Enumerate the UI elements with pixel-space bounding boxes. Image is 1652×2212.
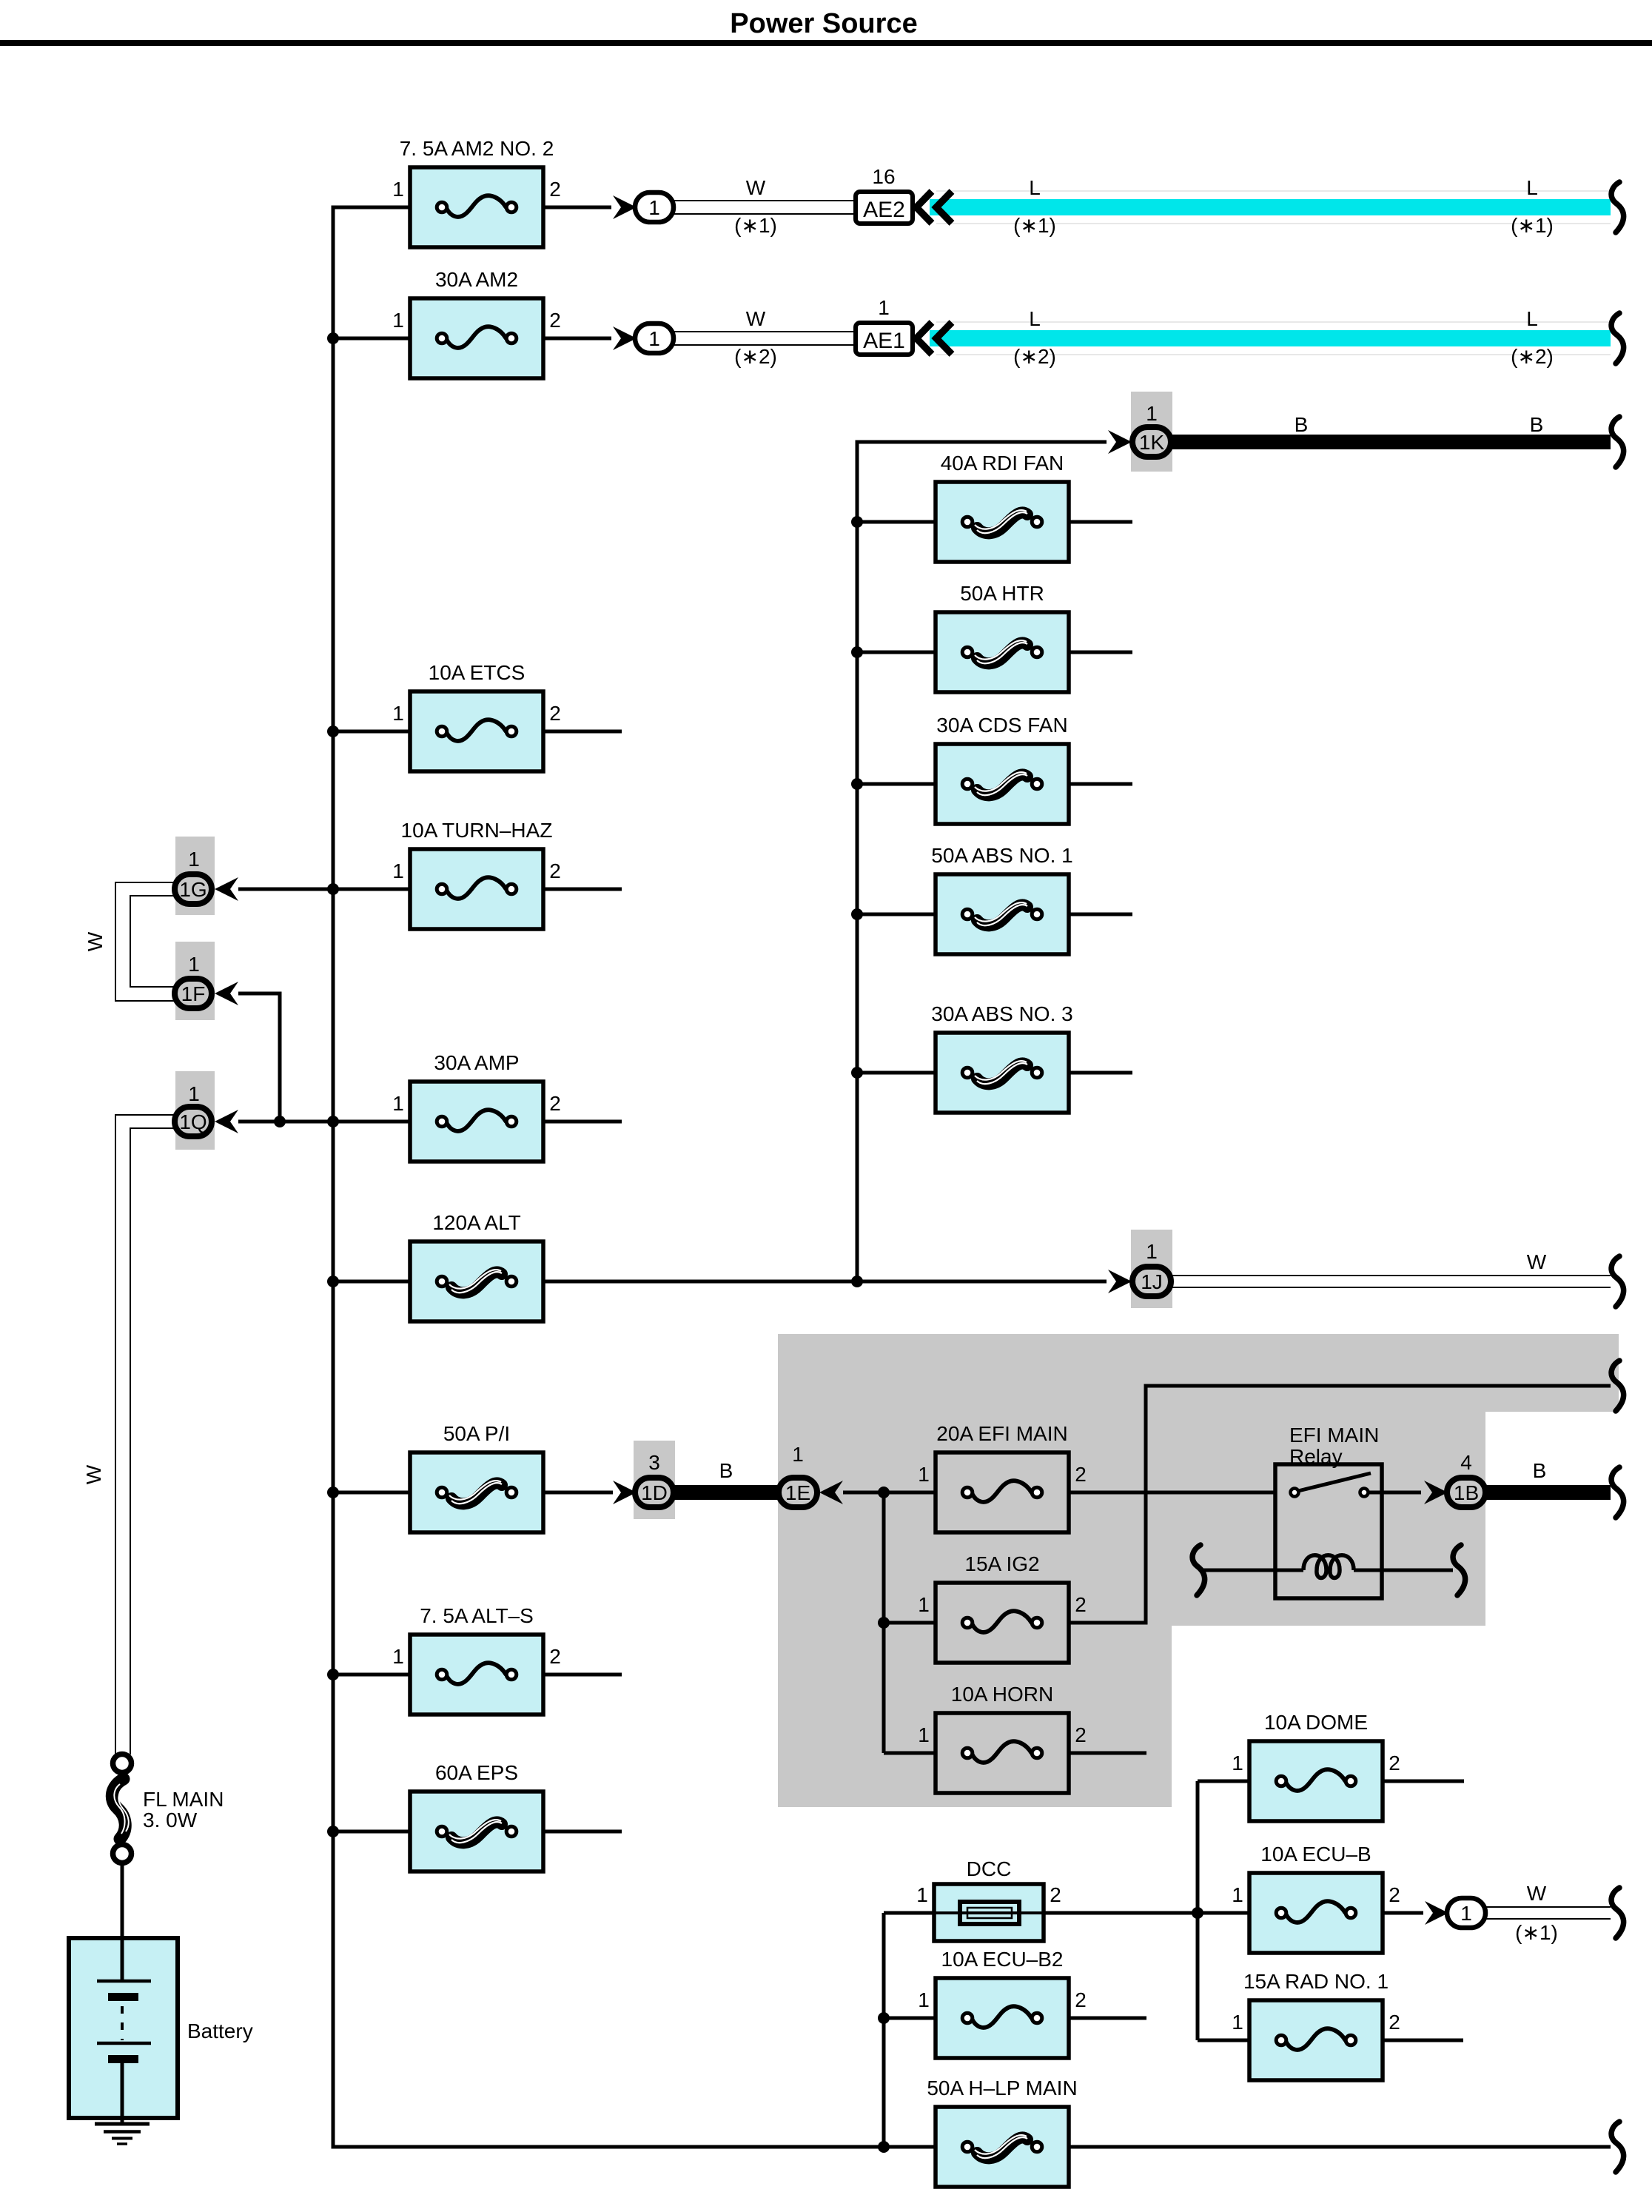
wire bank bus to fuse 50A ABS NO. 1 (857, 913, 937, 916)
wire main bus vertical from row1 down to bottom row (332, 206, 335, 2149)
fuse 20A EFI MAIN (918, 1422, 1087, 1532)
svg-text:(∗2): (∗2) (1511, 345, 1554, 368)
wire fuse 30A CDS FAN output stub (1069, 782, 1132, 786)
wire trunk to fuse ECU-B2 (884, 2017, 937, 2020)
svg-text:1: 1 (648, 327, 660, 350)
svg-text:(∗1): (∗1) (1511, 214, 1554, 237)
wire bank bus to fuse 40A RDI FAN (857, 520, 937, 524)
fuse 50A H-LP MAIN (927, 2077, 1077, 2187)
wire trunk to fuse RAD NO.1 (1198, 2039, 1251, 2042)
arrow into connector 1F (215, 982, 238, 1005)
svg-text:15A RAD NO. 1: 15A RAD NO. 1 (1243, 1970, 1389, 1993)
svg-text:W: W (746, 307, 766, 330)
node junction DCC trunk H-LP row (878, 2141, 890, 2153)
svg-text:W: W (84, 931, 107, 951)
label B row 1B (1533, 1459, 1547, 1482)
fusible link FL MAIN 3.0W (112, 1754, 224, 1863)
grey pad behind connector 1F (175, 942, 215, 1020)
svg-text:1: 1 (1232, 1752, 1243, 1774)
svg-text:1Q: 1Q (179, 1110, 206, 1133)
svg-text:L: L (1029, 176, 1041, 199)
wire bus to fuse P/I (333, 1491, 412, 1495)
svg-text:1: 1 (1232, 1883, 1243, 1906)
svg-text:1: 1 (648, 196, 660, 219)
svg-text:3. 0W: 3. 0W (143, 1809, 198, 1831)
break squiggle row 1B (1611, 1467, 1624, 1518)
grey pad behind connector 1D (634, 1441, 675, 1519)
svg-text:1D: 1D (641, 1481, 668, 1504)
labels B row 1K (1295, 413, 1544, 436)
svg-text:1: 1 (188, 1082, 200, 1105)
wire right-bank bus vertical (857, 442, 1107, 1281)
fuse 7.5A AM2 NO. 2 (392, 137, 561, 247)
wire bus to fuse EPS (333, 1830, 412, 1834)
labels W (*1) ECU-B row (1515, 1882, 1558, 1944)
wire fuse ALT to 1J (543, 1280, 1107, 1284)
node junction bus row 2 (327, 332, 339, 344)
wire L cyan row 2 (930, 322, 1611, 355)
arrow into connector 1J (1108, 1270, 1132, 1293)
svg-text:30A AMP: 30A AMP (434, 1051, 519, 1074)
wire fuse EFI MAIN to relay (1069, 1491, 1275, 1495)
svg-text:60A EPS: 60A EPS (435, 1761, 518, 1784)
wire trunk to fuse IG2 (884, 1621, 937, 1625)
svg-text:1: 1 (918, 1723, 930, 1746)
wire bus to fuse AM2 (333, 337, 412, 341)
wire DCC trunk vertical (882, 1913, 886, 2147)
wire 1Q to bus to fuse AMP (238, 1120, 412, 1124)
node junction right bank 50A ABS NO. 1 (851, 908, 863, 920)
svg-text:120A ALT: 120A ALT (432, 1211, 520, 1234)
svg-text:(∗1): (∗1) (1515, 1921, 1558, 1944)
svg-text:W: W (1527, 1250, 1547, 1273)
svg-text:Battery: Battery (187, 2020, 253, 2042)
svg-text:1B: 1B (1454, 1481, 1479, 1504)
fuse 15A RAD NO. 1 (1232, 1970, 1400, 2080)
wire fuse HORN output stub (1069, 1752, 1146, 1755)
wire B thick row 1K (1172, 435, 1611, 449)
wire fuse 40A RDI FAN output stub (1069, 520, 1132, 524)
svg-text:L: L (1526, 176, 1538, 199)
svg-text:W: W (746, 176, 766, 199)
relay coil (1201, 1555, 1453, 1578)
fuse 40A RDI FAN (936, 452, 1069, 562)
node junction bus ETCS (327, 725, 339, 737)
break squiggle row 2 (1611, 313, 1624, 363)
fuse 15A IG2 (918, 1552, 1087, 1663)
svg-text:1: 1 (918, 1988, 930, 2011)
node junction bus P/I (327, 1487, 339, 1498)
svg-text:40A RDI FAN: 40A RDI FAN (941, 452, 1064, 475)
svg-text:1: 1 (392, 702, 404, 725)
wire B thick 1D to 1E (674, 1485, 779, 1500)
svg-text:FL MAIN: FL MAIN (143, 1788, 224, 1811)
wire fuse AMP output stub (543, 1120, 622, 1124)
svg-text:20A EFI MAIN: 20A EFI MAIN (936, 1422, 1067, 1445)
svg-text:2: 2 (1075, 1723, 1087, 1746)
svg-text:30A CDS FAN: 30A CDS FAN (936, 714, 1067, 737)
node junction DCC trunk ECU-B2 (878, 2012, 890, 2024)
wire trunk to fuse DCC (884, 1911, 936, 1915)
break squiggle relay coil right (1453, 1545, 1465, 1595)
svg-text:2: 2 (1075, 1593, 1087, 1616)
wire EFI trunk vertical (882, 1492, 886, 1753)
fuse 10A TURN-HAZ (392, 819, 561, 929)
node junction EFI trunk IG2 (878, 1617, 890, 1629)
wire fuse AM2 NO.2 pin2 to connector arrow (543, 206, 611, 210)
title Power Source (0, 8, 1652, 46)
wire fuse TURN-HAZ output stub (543, 888, 622, 891)
wire bus to fuse ETCS (333, 730, 412, 734)
svg-text:15A IG2: 15A IG2 (964, 1552, 1039, 1575)
wire bottom run from bus to H-LP MAIN fuse (332, 2145, 936, 2149)
wire fuse ETCS output stub (543, 730, 622, 734)
wire W double-line to AE1 (674, 332, 856, 345)
node junction bus ALT-S (327, 1669, 339, 1680)
svg-text:1: 1 (878, 296, 890, 319)
svg-text:B: B (719, 1459, 733, 1482)
svg-text:10A ECU–B2: 10A ECU–B2 (941, 1948, 1064, 1971)
svg-text:10A ETCS: 10A ETCS (429, 661, 526, 684)
arrow into connector 1D (613, 1481, 637, 1504)
svg-text:Power Source: Power Source (730, 8, 917, 39)
connector 1 (oval) ECU-B row (1447, 1898, 1485, 1928)
connector AE2 pin 16 (856, 165, 913, 224)
svg-text:2: 2 (549, 1645, 561, 1668)
connector 1F pin 1 (175, 953, 212, 1008)
wire fuse ECU-B to connector (1383, 1911, 1423, 1915)
grey pad behind connector 1Q (175, 1071, 215, 1150)
svg-text:DCC: DCC (967, 1857, 1012, 1880)
label W rotated on 1Q wire (82, 1464, 105, 1484)
svg-text:1: 1 (188, 953, 200, 976)
wire L cyan row 1 (930, 191, 1611, 224)
wire W double-line to AE2 (674, 201, 856, 214)
node junction bank bus on ALT row (851, 1276, 863, 1287)
wire bus to fuse ALT-S (333, 1673, 412, 1677)
fuse 50A HTR (936, 582, 1069, 692)
connector 1K pin 1 (1132, 402, 1171, 457)
grey pad behind connector 1J (1131, 1230, 1172, 1308)
wire DOME trunk vertical (1196, 1781, 1200, 2040)
svg-text:2: 2 (1075, 1463, 1087, 1486)
connector 1 (oval) row 1 (635, 192, 674, 222)
svg-text:1: 1 (392, 1645, 404, 1668)
svg-text:1: 1 (918, 1463, 930, 1486)
wire B thick from 1B (1486, 1485, 1611, 1500)
arrow into connector 1 (row 1) (613, 195, 637, 219)
svg-text:2: 2 (549, 178, 561, 201)
label W rotated on 1G-1F wire (84, 931, 107, 951)
wire fuse ALT-S output stub (543, 1673, 622, 1677)
svg-text:L: L (1526, 307, 1538, 330)
grey pad behind connector 1G (175, 837, 215, 915)
fuse 10A DOME (1232, 1711, 1400, 1821)
svg-text:2: 2 (549, 702, 561, 725)
svg-text:2: 2 (549, 859, 561, 882)
chevrons at AE1 (916, 323, 952, 355)
wire fuse 50A ABS NO. 1 output stub (1069, 913, 1132, 916)
svg-text:1: 1 (792, 1443, 804, 1466)
wire bus to fuse ALT (333, 1280, 412, 1284)
wire fuse 30A ABS NO. 3 output stub (1069, 1071, 1132, 1075)
wire trunk to fuse DOME (1198, 1780, 1251, 1783)
connector 1Q pin 1 (175, 1082, 212, 1136)
fuse 10A ETCS (392, 661, 561, 771)
svg-text:1: 1 (392, 859, 404, 882)
svg-text:1E: 1E (785, 1481, 810, 1504)
svg-text:(∗1): (∗1) (734, 214, 777, 237)
wire 1G to bus to fuse TURN-HAZ (238, 888, 412, 891)
svg-text:7. 5A ALT–S: 7. 5A ALT–S (420, 1604, 534, 1627)
grey pad behind connector 1K (1131, 392, 1172, 472)
svg-text:B: B (1530, 413, 1544, 436)
wire W double-line 1G to 1F (115, 882, 175, 1001)
svg-text:10A TURN–HAZ: 10A TURN–HAZ (401, 819, 553, 842)
fuse 10A HORN (918, 1683, 1087, 1793)
fuse 10A ECU-B (1232, 1843, 1400, 1953)
svg-text:10A ECU–B: 10A ECU–B (1260, 1843, 1371, 1866)
svg-text:4: 4 (1460, 1451, 1472, 1474)
svg-text:1K: 1K (1139, 431, 1165, 454)
fuse 30A AM2 (392, 268, 561, 378)
wire fuse DOME output stub (1383, 1780, 1464, 1783)
svg-text:1: 1 (916, 1883, 928, 1906)
wire fuse RAD NO.1 output stub (1383, 2039, 1463, 2042)
wire W double-line 1Q to FL MAIN (115, 1115, 175, 1754)
arrow into connector 1Q (215, 1110, 238, 1133)
wire bank bus to fuse 30A CDS FAN (857, 782, 937, 786)
node junction EFI trunk top (878, 1487, 890, 1498)
svg-text:1: 1 (188, 848, 200, 871)
wire trunk to fuse HORN (884, 1752, 937, 1755)
wire 1E to fuse EFI MAIN (843, 1491, 937, 1495)
svg-text:50A ABS NO. 1: 50A ABS NO. 1 (931, 844, 1072, 867)
svg-text:50A H–LP MAIN: 50A H–LP MAIN (927, 2077, 1077, 2099)
svg-text:1: 1 (1146, 1240, 1158, 1263)
labels L (*1) row 1 (1013, 176, 1554, 237)
svg-text:1: 1 (392, 1092, 404, 1115)
svg-text:(∗2): (∗2) (734, 345, 777, 368)
wire fuse ECU-B2 output stub (1069, 2017, 1146, 2020)
arrow into connector 1G (215, 877, 238, 901)
svg-text:1: 1 (1146, 402, 1158, 425)
wire fuse 50A HTR output stub (1069, 651, 1132, 654)
wire IG2 output riser and exit (1069, 1386, 1611, 1623)
fuse 120A ALT (410, 1211, 543, 1321)
node junction bus ALT (327, 1276, 339, 1287)
wire DCC to fuse ECU-B (1044, 1911, 1251, 1915)
fuse 60A EPS (410, 1761, 543, 1871)
relay EFI MAIN Relay (1275, 1424, 1421, 1598)
wire W double-line from 1J (1172, 1276, 1611, 1287)
svg-text:50A P/I: 50A P/I (443, 1422, 510, 1445)
node junction bus EPS (327, 1826, 339, 1837)
break squiggle H-LP row (1611, 2122, 1624, 2172)
fuse 50A ABS NO. 1 (931, 844, 1072, 954)
arrow into connector 1 (ECU-B) (1425, 1901, 1448, 1925)
EFI grey background region (778, 1334, 1619, 1807)
ground symbol (95, 2118, 150, 2144)
fuse 7.5A ALT-S (392, 1604, 561, 1715)
connector 1B pin 4 (1447, 1451, 1485, 1507)
fuse DCC (916, 1857, 1061, 1941)
svg-text:16: 16 (872, 165, 895, 188)
svg-text:1: 1 (918, 1593, 930, 1616)
arrow into connector 1 (row 2) (613, 326, 637, 350)
wire 1F to 1Q row (238, 993, 280, 1122)
arrow into connector 1K (1108, 430, 1132, 454)
break squiggle relay coil left (1192, 1545, 1205, 1595)
arrow into connector 1B (1424, 1481, 1448, 1504)
wire fuse H-LP MAIN output to edge (1069, 2145, 1611, 2149)
break squiggle ECU-B row (1611, 1888, 1624, 1938)
svg-text:W: W (1527, 1882, 1547, 1905)
connector 1E pin 1 (779, 1443, 817, 1507)
svg-text:1: 1 (392, 309, 404, 332)
node junction 1F drop on 1Q wire (274, 1116, 286, 1127)
svg-text:W: W (82, 1464, 105, 1484)
svg-text:(∗2): (∗2) (1013, 345, 1056, 368)
fuse 30A CDS FAN (936, 714, 1069, 824)
svg-text:50A HTR: 50A HTR (960, 582, 1044, 605)
wire bank bus to fuse 30A ABS NO. 3 (857, 1071, 937, 1075)
svg-text:10A HORN: 10A HORN (951, 1683, 1054, 1706)
svg-text:2: 2 (1075, 1988, 1087, 2011)
chevrons at AE2 (916, 192, 952, 224)
svg-text:2: 2 (1389, 1883, 1400, 1906)
break squiggle row 1K (1611, 417, 1624, 467)
svg-text:L: L (1029, 307, 1041, 330)
node junction right bank 50A HTR (851, 646, 863, 658)
label W (*2) on wire (734, 307, 777, 368)
connector 1 (oval) row 2 (635, 324, 674, 353)
wire FL MAIN to battery (121, 1863, 124, 1940)
wire bus to fuse AM2 NO.2 (333, 206, 412, 210)
svg-text:1F: 1F (181, 982, 206, 1005)
connector AE1 pin 1 (856, 296, 913, 355)
wire W double-line from ECU-B connector (1486, 1907, 1611, 1919)
wire fuse EPS output stub (543, 1830, 622, 1834)
svg-text:AE1: AE1 (863, 329, 905, 353)
svg-text:1J: 1J (1141, 1270, 1163, 1293)
fuse 30A ABS NO. 3 (931, 1002, 1072, 1113)
node junction right bank 30A ABS NO. 3 (851, 1067, 863, 1079)
svg-text:1: 1 (1460, 1902, 1472, 1925)
svg-text:10A DOME: 10A DOME (1264, 1711, 1368, 1734)
node junction bus AMP (327, 1116, 339, 1127)
label W row 1J (1527, 1250, 1547, 1273)
svg-text:B: B (1533, 1459, 1547, 1482)
node junction right bank 30A CDS FAN (851, 778, 863, 790)
wire bank bus to fuse 50A HTR (857, 651, 937, 654)
wire fuse P/I to 1D (543, 1491, 613, 1495)
svg-text:1: 1 (392, 178, 404, 201)
svg-text:2: 2 (549, 309, 561, 332)
svg-text:B: B (1295, 413, 1309, 436)
labels L (*2) row 2 (1013, 307, 1554, 368)
svg-text:1: 1 (1232, 2011, 1243, 2034)
svg-text:2: 2 (549, 1092, 561, 1115)
fuse 30A AMP (392, 1051, 561, 1162)
svg-text:AE2: AE2 (863, 198, 905, 222)
connector 1J pin 1 (1132, 1240, 1171, 1296)
node junction bus TURN-HAZ (327, 883, 339, 895)
battery (69, 1938, 253, 2118)
wire fuse AM2 pin2 to connector arrow (543, 337, 611, 341)
label W (*1) on wire (734, 176, 777, 237)
connector 1D pin 3 (635, 1451, 674, 1507)
svg-text:EFI MAIN: EFI MAIN (1289, 1424, 1379, 1447)
node junction DOME trunk ECU-B row (1192, 1907, 1203, 1919)
svg-text:30A AM2: 30A AM2 (435, 268, 518, 291)
svg-text:3: 3 (648, 1451, 660, 1474)
break squiggle IG2 exit (1611, 1361, 1624, 1411)
break squiggle row 1 (1611, 182, 1624, 232)
svg-text:2: 2 (1050, 1883, 1061, 1906)
fuse 50A P/I (410, 1422, 543, 1532)
svg-text:(∗1): (∗1) (1013, 214, 1056, 237)
node junction right bank 40A RDI FAN (851, 516, 863, 528)
svg-text:2: 2 (1389, 2011, 1400, 2034)
svg-text:1G: 1G (179, 878, 206, 901)
svg-text:30A ABS NO. 3: 30A ABS NO. 3 (931, 1002, 1072, 1025)
fuse 10A ECU-B2 (918, 1948, 1087, 2058)
label B between 1D and 1E (719, 1459, 733, 1482)
svg-text:2: 2 (1389, 1752, 1400, 1774)
break squiggle row 1J (1611, 1256, 1624, 1307)
svg-text:7. 5A AM2 NO. 2: 7. 5A AM2 NO. 2 (400, 137, 554, 160)
connector 1G pin 1 (175, 848, 212, 904)
arrow into connector 1E (819, 1481, 843, 1504)
